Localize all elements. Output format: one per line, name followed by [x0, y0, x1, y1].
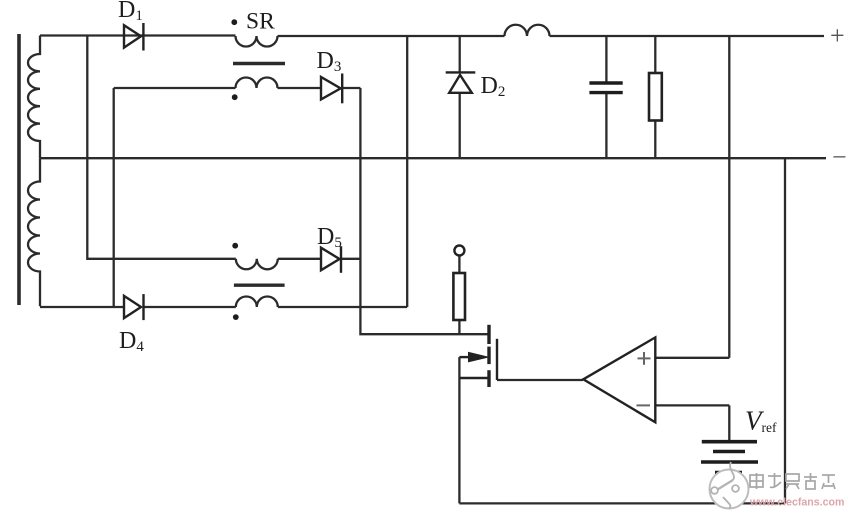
svg-text:D4: D4 [119, 328, 144, 355]
svg-text:−: − [832, 143, 847, 172]
svg-text:D2: D2 [481, 73, 506, 100]
svg-text:D5: D5 [317, 224, 342, 251]
svg-text:SR: SR [246, 9, 275, 35]
svg-text:www.elecfans.com: www.elecfans.com [749, 497, 844, 509]
svg-text:D1: D1 [118, 0, 143, 24]
svg-text:D3: D3 [317, 48, 342, 75]
svg-text:Vref: Vref [745, 406, 777, 436]
svg-text:+: + [830, 21, 845, 50]
